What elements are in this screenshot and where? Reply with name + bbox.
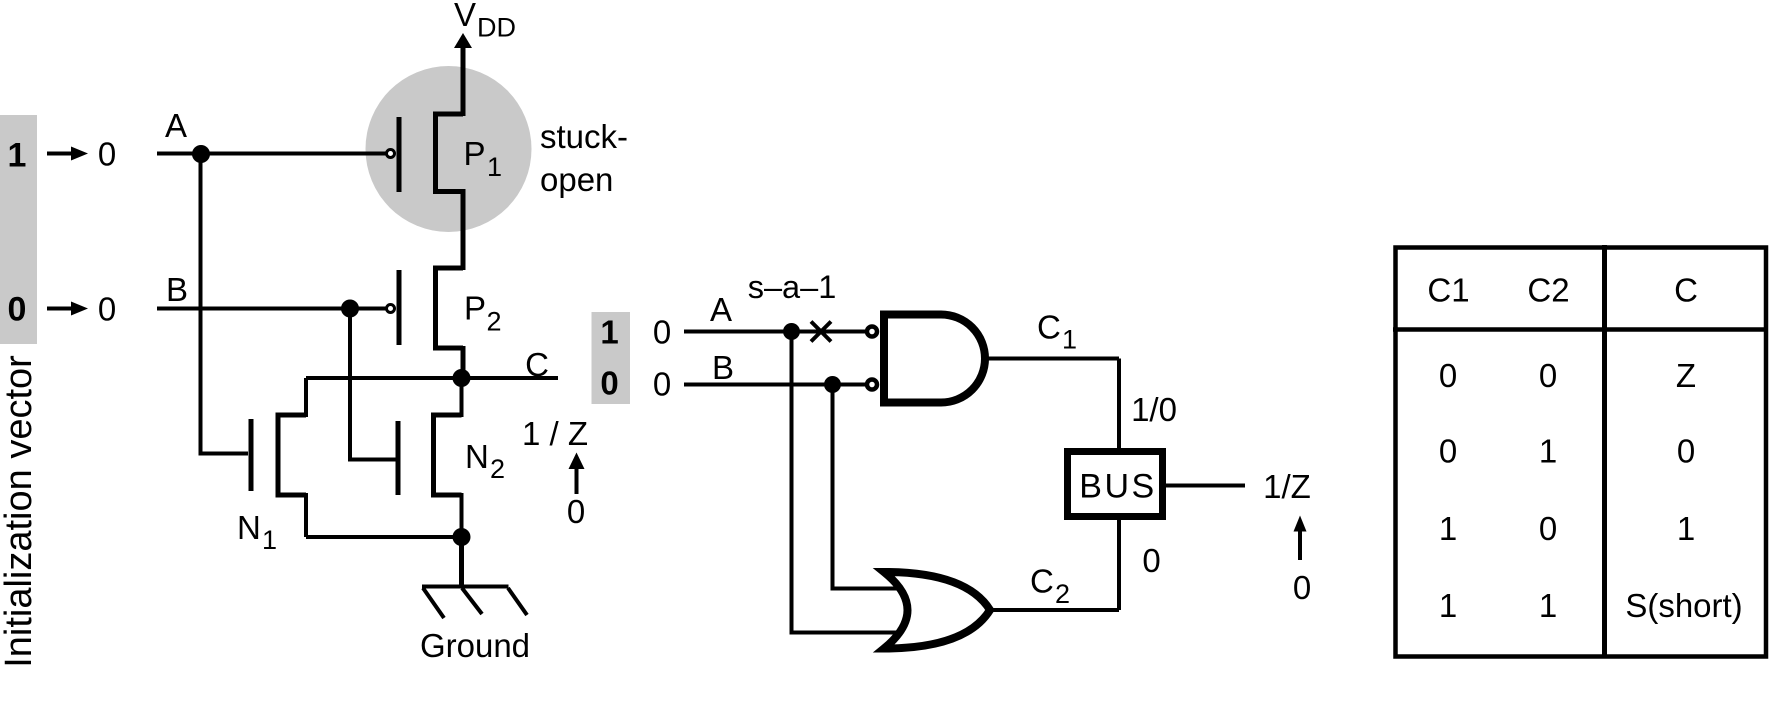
svg-text:1: 1: [1062, 325, 1077, 355]
svg-text:1: 1: [8, 137, 27, 175]
wire input B: [157, 307, 386, 311]
svg-text:1: 1: [600, 314, 618, 351]
ground: [422, 537, 527, 618]
wire input B (middle): [684, 383, 865, 387]
svg-text:Z: Z: [1676, 357, 1696, 394]
label A: [165, 107, 187, 144]
value 0 (input B, middle): [600, 365, 618, 402]
svg-text:1: 1: [1439, 587, 1457, 624]
svg-text:1: 1: [487, 152, 502, 182]
svg-text:C: C: [1037, 309, 1061, 346]
transistor P2 (PMOS): [387, 266, 464, 351]
label 1/Z: [1263, 468, 1311, 505]
label 0 (below right arrow): [1293, 569, 1311, 606]
wire P2 to node C: [461, 346, 466, 378]
svg-text:1: 1: [1539, 587, 1557, 624]
svg-text:BUS: BUS: [1079, 468, 1156, 506]
label P1: [464, 135, 503, 182]
ground node junction: [453, 528, 471, 546]
AND gate G1: [884, 315, 985, 403]
wire C2: [991, 520, 1119, 610]
wire N1 source to ground node: [306, 535, 462, 539]
label B: [166, 271, 188, 308]
svg-text:0: 0: [1439, 433, 1457, 470]
svg-text:1/Z: 1/Z: [1263, 468, 1311, 505]
table frame: [1393, 245, 1768, 657]
node A junction: [192, 145, 210, 163]
svg-text:0: 0: [98, 136, 116, 173]
label A (middle): [710, 291, 732, 328]
svg-text:0: 0: [600, 365, 618, 402]
wire N1 source down: [304, 493, 308, 537]
wire N2 source down: [460, 493, 464, 537]
wire B to OR gate: [831, 385, 909, 589]
BUS box: [1068, 452, 1163, 517]
svg-text:0: 0: [1439, 357, 1457, 394]
svg-text:1: 1: [1439, 510, 1457, 547]
test vector gray box: [592, 312, 631, 404]
arrow input B: [47, 302, 88, 316]
arrow 0 to 1/Z (right): [1294, 516, 1307, 561]
svg-text:C: C: [1030, 563, 1054, 600]
initialization vector gray bar: [0, 115, 37, 344]
svg-text:s–a–1: s–a–1: [748, 269, 837, 305]
svg-text:2: 2: [490, 454, 505, 484]
arrow input A: [47, 147, 88, 161]
svg-text:A: A: [710, 291, 732, 328]
fault cross X: [811, 322, 831, 342]
svg-text:0: 0: [1539, 357, 1557, 394]
svg-text:0: 0: [1677, 433, 1695, 470]
label 1/0: [1131, 391, 1177, 428]
stuck-open fault highlight circle: [366, 66, 532, 232]
svg-text:P: P: [464, 135, 486, 172]
wire P1 to P2: [461, 189, 466, 270]
svg-text:0: 0: [1539, 510, 1557, 547]
svg-text:0: 0: [567, 493, 585, 530]
svg-text:2: 2: [487, 307, 502, 337]
transistor N1 (NMOS): [251, 413, 306, 498]
wire N2 drain to C: [460, 378, 464, 417]
row 1: 0 0 Z: [1439, 357, 1696, 394]
label N1: [237, 509, 277, 555]
header C2: [1527, 272, 1569, 309]
svg-text:A: A: [165, 107, 187, 144]
initialization value 0 (input B): [8, 291, 27, 329]
svg-text:1: 1: [1539, 433, 1557, 470]
node B junction: [341, 300, 359, 318]
label P2: [464, 290, 502, 337]
arrow 0 to 1/Z: [569, 453, 585, 495]
label 0 (below arrow): [567, 493, 585, 530]
svg-text:S(short): S(short): [1625, 587, 1742, 624]
label C: [525, 346, 549, 383]
applied 0 (input B, middle): [653, 366, 671, 403]
svg-text:C2: C2: [1527, 272, 1569, 309]
row 2: 0 1 0: [1439, 433, 1695, 470]
label 0 (C2 value): [1142, 542, 1160, 579]
svg-text:C: C: [525, 346, 549, 383]
svg-text:0: 0: [1142, 542, 1160, 579]
wire A to N1 gate: [199, 154, 249, 454]
label stuck-open: [540, 118, 628, 198]
label Ground: [420, 627, 530, 664]
node A junction (middle): [783, 323, 800, 340]
OR gate G2: [884, 572, 990, 649]
svg-text:0: 0: [98, 291, 116, 328]
svg-text:1 / Z: 1 / Z: [522, 415, 588, 452]
transistor P1 (PMOS, stuck-open): [387, 112, 464, 195]
header C: [1674, 272, 1698, 309]
label Initialization vector: [0, 355, 40, 668]
VDD power symbol: [454, 0, 516, 116]
node C output wire: [306, 376, 558, 380]
svg-text:Ground: Ground: [420, 627, 530, 664]
wire input A: [157, 152, 386, 156]
svg-text:0: 0: [653, 314, 671, 351]
header C1: [1427, 272, 1469, 309]
label C2: [1030, 563, 1070, 610]
transistor N2 (NMOS): [398, 413, 462, 498]
svg-text:B: B: [166, 271, 188, 308]
wire C1: [983, 359, 1119, 449]
label B (middle): [712, 349, 734, 386]
row 3: 1 0 1: [1439, 510, 1695, 547]
svg-text:2: 2: [1055, 579, 1070, 609]
svg-text:1: 1: [1677, 510, 1695, 547]
wire BUS output: [1166, 484, 1245, 488]
svg-text:1/0: 1/0: [1131, 391, 1177, 428]
svg-text:B: B: [712, 349, 734, 386]
svg-text:stuck-: stuck-: [540, 118, 628, 155]
svg-text:0: 0: [653, 366, 671, 403]
applied value 0 (input A): [98, 136, 116, 173]
svg-text:N: N: [465, 438, 489, 475]
svg-text:1: 1: [262, 525, 277, 555]
svg-text:V: V: [454, 0, 476, 33]
svg-text:DD: DD: [477, 13, 516, 43]
svg-text:Initialization vector: Initialization vector: [0, 355, 40, 668]
svg-text:C: C: [1674, 272, 1698, 309]
svg-text:C1: C1: [1427, 272, 1469, 309]
applied 0 (input A, middle): [653, 314, 671, 351]
wire A to OR gate: [790, 332, 909, 633]
node C junction: [453, 369, 471, 387]
svg-text:0: 0: [1293, 569, 1311, 606]
wire input A (middle): [684, 330, 865, 334]
svg-text:open: open: [540, 161, 613, 198]
svg-text:0: 0: [8, 291, 27, 329]
label C1: [1037, 309, 1077, 355]
node B junction (middle): [824, 376, 841, 393]
input bubble A (gate G1): [867, 327, 877, 337]
label N2: [465, 438, 505, 484]
wire B to N2 gate: [348, 309, 396, 460]
wire N1 drain to C: [304, 378, 308, 417]
label s-a-1: [748, 269, 837, 305]
input bubble B (gate G1): [867, 380, 877, 390]
row 4: 1 1 S(short): [1439, 587, 1743, 624]
initialization value 1 (input A): [8, 137, 27, 175]
label 1 / Z (node C value): [522, 415, 588, 452]
svg-text:P: P: [464, 290, 486, 327]
applied value 0 (input B): [98, 291, 116, 328]
value 1 (input A, middle): [600, 314, 618, 351]
svg-text:N: N: [237, 509, 261, 546]
